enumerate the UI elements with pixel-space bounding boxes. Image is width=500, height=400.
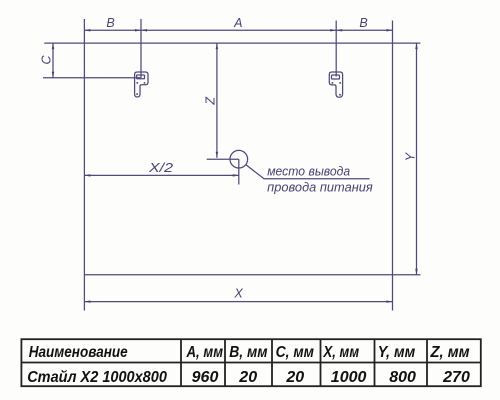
svg-text:В, мм: В, мм [229,344,268,361]
svg-text:20: 20 [285,369,304,386]
svg-text:B: B [359,16,367,30]
bracket 1 centerline [140,19,142,78]
Y arrow up [415,43,418,49]
svg-text:X: X [233,287,243,301]
bracket 1 hole bottom [136,93,138,95]
svg-text:Z: Z [204,97,218,106]
C arrow down [52,72,55,78]
top dimension line [84,29,392,31]
panel right edge / extension line [392,21,394,311]
table divider 5 [374,339,376,386]
panel bottom edge [84,274,420,276]
svg-text:A, мм: A, мм [186,344,223,361]
svg-text:Наименование: Наименование [29,344,128,361]
svg-text:A: A [233,16,242,30]
X/2 arrow left [84,174,90,177]
svg-text:20: 20 [238,369,257,386]
panel left edge / extension line [83,19,85,311]
svg-text:Y, мм: Y, мм [378,344,416,361]
svg-text:место вывода: место вывода [267,165,350,179]
leader line from circle [246,165,370,179]
arrow B right / A left pair at first centerline [135,29,147,32]
power outlet circle [230,150,248,168]
bracket 1 window [137,75,145,79]
X/2 dimension line [84,174,238,176]
C dimension line [52,43,54,78]
bracket 1 hole left [137,82,139,84]
Z dimension line [216,43,218,158]
svg-text:C, мм: C, мм [276,344,315,361]
svg-text:Стайл Х2 1000х800: Стайл Х2 1000х800 [27,369,167,386]
panel top edge [44,42,420,44]
table divider 2 [224,339,226,386]
bracket 1 hole right [144,82,146,84]
Y arrow down [415,269,418,275]
mounting bracket 1 body [135,72,148,97]
C bottom extension line [43,77,141,79]
svg-text:Z, мм: Z, мм [430,344,470,361]
C arrow up [52,43,55,49]
bracket 2 window [332,75,340,79]
svg-text:B: B [106,16,114,30]
svg-text:Y: Y [404,151,418,161]
svg-text:C: C [39,55,53,65]
bracket 2 hole left [332,82,334,84]
table divider 6 [426,339,428,386]
X/2 arrow right [233,174,239,177]
X arrow right [387,300,393,303]
bracket 2 hole bottom [339,94,341,96]
X/2 vertical extension line [238,159,240,184]
svg-text:960: 960 [192,369,219,386]
Z arrow up [216,43,219,49]
svg-text:270: 270 [442,369,470,386]
arrow A right / B left pair at second centerline [330,29,342,32]
X dimension line [84,301,392,303]
table outer border [21,339,480,386]
arrow B far right [387,29,393,32]
Y dimension line [416,43,418,275]
bracket 2 hole right [339,82,341,84]
X arrow left [84,300,90,303]
svg-text:X, мм: X, мм [323,344,360,361]
table divider 3 [271,339,273,386]
svg-text:провода питания: провода питания [267,180,373,194]
Z arrow down [216,152,219,158]
table middle horizontal line [21,362,480,364]
svg-text:X/2: X/2 [148,161,173,175]
table divider 1 [180,339,182,386]
circle centre extension line [207,158,239,160]
mounting bracket 2 body [329,72,342,97]
bracket 2 centerline [335,21,337,77]
arrow B left [84,29,90,32]
svg-text:1000: 1000 [331,369,367,386]
table divider 4 [320,339,322,386]
svg-text:800: 800 [389,369,416,386]
